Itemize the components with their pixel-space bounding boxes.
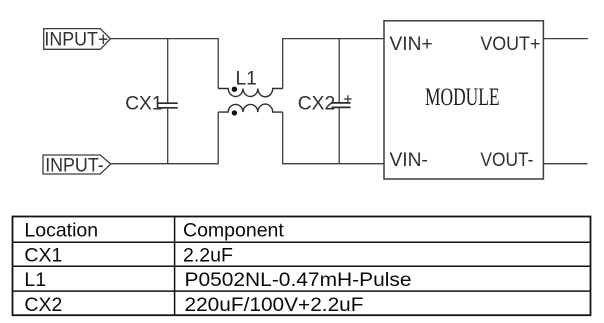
inductor L1 top winding <box>218 87 283 97</box>
polarity plus mark CX2 <box>344 95 351 103</box>
svg-text:INPUT-: INPUT- <box>45 155 103 176</box>
svg-text:L1: L1 <box>24 269 46 291</box>
svg-text:P0502NL-0.47mH-Pulse: P0502NL-0.47mH-Pulse <box>185 269 412 291</box>
svg-text:Location: Location <box>24 220 98 242</box>
wire bottom rail from INPUT- tip to choke left corner <box>111 112 219 164</box>
svg-text:Component: Component <box>183 220 284 242</box>
svg-text:VIN+: VIN+ <box>390 34 433 55</box>
svg-text:220uF/100V+2.2uF: 220uF/100V+2.2uF <box>185 294 364 316</box>
capacitor CX2 <box>332 39 352 164</box>
wire top rail from INPUT+ tip to choke left corner <box>110 39 218 89</box>
svg-text:2.2uF: 2.2uF <box>183 244 233 266</box>
components table <box>13 217 591 316</box>
svg-text:INPUT+: INPUT+ <box>44 29 108 50</box>
svg-text:CX1: CX1 <box>125 94 162 115</box>
polarity dot L1 top <box>232 87 237 92</box>
module U1 <box>384 21 543 179</box>
wire output VOUT- <box>543 163 587 165</box>
svg-text:VOUT+: VOUT+ <box>480 34 540 55</box>
capacitor CX1 <box>157 39 177 164</box>
input tag INPUT- <box>43 155 111 176</box>
svg-text:VOUT-: VOUT- <box>480 150 533 171</box>
svg-text:L1: L1 <box>236 69 257 90</box>
svg-text:VIN-: VIN- <box>390 150 428 171</box>
input tag INPUT+ <box>44 29 111 51</box>
inductor L1 bottom winding <box>218 104 283 116</box>
svg-text:CX1: CX1 <box>24 244 62 266</box>
svg-text:CX2: CX2 <box>24 294 62 316</box>
svg-text:CX2: CX2 <box>298 94 335 115</box>
polarity dot L1 bottom <box>232 110 237 115</box>
svg-text:MODULE: MODULE <box>425 82 500 111</box>
wire output VOUT+ <box>543 38 588 40</box>
wire bottom rail from choke right corner to module VIN- <box>283 112 384 164</box>
wire top rail from choke right corner to module VIN+ <box>283 39 384 89</box>
